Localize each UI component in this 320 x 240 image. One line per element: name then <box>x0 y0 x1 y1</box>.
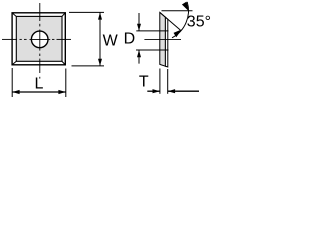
L dimension extension line right <box>65 69 67 98</box>
svg-text:L: L <box>35 76 44 93</box>
center hole <box>31 31 48 48</box>
L dimension line <box>12 91 66 93</box>
angle arrow bottom <box>174 29 182 37</box>
T dimension line right segment <box>168 90 199 92</box>
bevel line extended (35 degree edge) <box>160 12 181 30</box>
side view front white band <box>165 17 167 67</box>
D dimension bottom arrow shaft <box>138 50 140 64</box>
horizontal centerline <box>2 38 71 40</box>
L arrow right <box>58 90 65 94</box>
chamfer corner diagonal bottom-left <box>12 61 16 65</box>
L arrow left <box>12 90 19 94</box>
W dimension extension line bottom <box>72 65 105 67</box>
angle arc <box>172 2 188 38</box>
T dimension extension line left <box>159 69 161 94</box>
svg-text:D: D <box>124 31 136 48</box>
svg-text:35°: 35° <box>187 14 211 31</box>
svg-text:W: W <box>103 33 119 50</box>
D dimension top arrow shaft <box>138 13 140 31</box>
T dimension line left segment <box>147 90 160 92</box>
angle reference horizontal line <box>162 10 193 12</box>
side view gray body <box>160 12 166 66</box>
T dimension extension line right <box>167 69 169 94</box>
insert face inner square <box>16 16 62 61</box>
vertical centerline <box>39 3 41 79</box>
D extension line top (hole edge) <box>136 30 168 32</box>
T arrow right-pointing <box>153 89 160 93</box>
T arrow left-pointing <box>168 89 175 93</box>
chamfer corner diagonal bottom-right <box>62 61 65 65</box>
W dimension extension line top <box>69 11 104 13</box>
D arrow down <box>137 24 141 31</box>
L dimension extension line left <box>11 68 13 97</box>
W dimension line <box>99 12 101 66</box>
angle arrow top <box>182 2 189 12</box>
insert body front view outer square <box>12 13 65 65</box>
W arrow up <box>98 12 102 19</box>
W arrow down <box>98 59 102 66</box>
chamfer corner diagonal top-right <box>62 13 65 17</box>
side view centerline <box>144 38 181 40</box>
D arrow up <box>137 50 141 57</box>
chamfer corner diagonal top-left <box>12 13 16 17</box>
svg-text:T: T <box>139 74 149 91</box>
D extension line bottom (hole edge) <box>136 49 169 51</box>
